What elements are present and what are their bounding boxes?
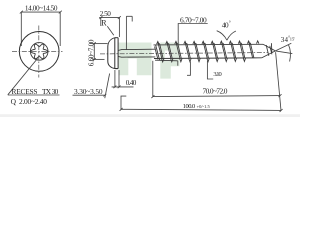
leader 6.70~7.00 <box>178 24 208 45</box>
thread crest top 6 <box>202 41 204 44</box>
svg-text:3.30~3.50: 3.30~3.50 <box>74 87 103 96</box>
thread crest bottom 6 <box>207 58 209 61</box>
leader 6.70~7.00 lower segment <box>177 61 179 66</box>
thread flank line b2 <box>169 43 173 58</box>
thread flank line a8 <box>221 42 225 59</box>
svg-text:0.40: 0.40 <box>126 79 137 87</box>
dimension line 2.50 <box>99 17 120 19</box>
slanted extension line at tip <box>276 52 281 110</box>
thread crest top 4 <box>184 41 186 44</box>
thread flank line b8 <box>223 43 227 58</box>
thread flank line a7 <box>212 42 216 59</box>
head flange edge <box>117 38 119 69</box>
extension line 2.50 left <box>100 18 102 26</box>
tick 70 left <box>151 95 154 98</box>
svg-text:RECESS: RECESS <box>12 87 38 96</box>
head outer circle <box>19 32 59 72</box>
svg-text:°: ° <box>229 22 231 27</box>
screw tip cone top edge <box>263 44 275 51</box>
thread crest top 10 <box>238 41 240 44</box>
thread flank line b9 <box>232 43 236 58</box>
40 deg angle leg right <box>227 31 236 40</box>
tip thread flank 1 <box>266 45 269 56</box>
svg-text:3.10: 3.10 <box>213 71 221 78</box>
thread flank line a4 <box>185 42 189 59</box>
shank bottom line <box>118 55 155 58</box>
thread flank line a3 <box>176 42 180 59</box>
leader line to recess <box>8 59 38 95</box>
thread flank line a10 <box>240 41 244 58</box>
wire: thread bottom root line <box>154 57 262 60</box>
dimension line 0.40 <box>112 86 134 88</box>
thread flank line b3 <box>178 43 182 58</box>
thread crest bottom 9 <box>234 58 236 61</box>
leader underline 3.30~3.50 <box>73 94 105 96</box>
extension line thread start <box>152 61 154 97</box>
thread lead-in flank 1 <box>156 45 160 61</box>
svg-text:2.00~2.40: 2.00~2.40 <box>19 97 47 106</box>
thread crest top 7 <box>211 41 213 44</box>
tip near-vertical flank <box>270 43 273 53</box>
tick right <box>59 11 62 14</box>
thread flank line a1 <box>158 42 162 59</box>
thread flank line b11 <box>250 43 254 58</box>
thread flank line b1 <box>160 43 164 58</box>
thread crest bottom 10 <box>243 58 245 61</box>
extension line 2.50 right <box>118 18 120 37</box>
thread crest bottom 3 <box>180 58 182 61</box>
tick left <box>20 11 23 14</box>
dimension 0.40 ext line right <box>118 70 120 87</box>
scan edge band bottom <box>0 114 300 117</box>
svg-text:14.00~14.50: 14.00~14.50 <box>25 4 58 12</box>
thread crest top 5 <box>193 41 195 44</box>
extension line upper <box>92 43 107 45</box>
svg-text:70.0~72.0: 70.0~72.0 <box>203 86 228 95</box>
thread crest top 1 <box>157 42 159 45</box>
torx star recess <box>31 44 48 59</box>
tick 3.30~3.50 <box>104 94 107 97</box>
tip angle leg lower <box>275 51 292 54</box>
thread flank line b7 <box>214 43 218 58</box>
leader R <box>107 26 114 35</box>
vertical dimension line 6.60~7.00 <box>93 44 95 60</box>
thread flank line a2 <box>167 42 171 59</box>
watermark logo left block <box>119 43 152 76</box>
thread flank line a11 <box>249 41 253 58</box>
dimension line 14.00~14.50 <box>21 11 60 13</box>
extension line right <box>59 12 61 46</box>
tick top <box>93 42 96 45</box>
tick 100 right <box>280 109 283 112</box>
thread flank line b4 <box>187 43 191 58</box>
thread crest bottom 8 <box>225 58 227 61</box>
dimension 0.40 ext line left <box>114 70 116 87</box>
thread flank line b5 <box>196 43 200 58</box>
thread crest bottom 4 <box>189 58 191 61</box>
tip angle leg upper <box>275 43 291 51</box>
leader slanted under head <box>105 74 110 99</box>
centerline axis <box>100 53 268 54</box>
tick 100 left <box>120 108 123 111</box>
tip thread flank 2 <box>270 46 272 55</box>
tick 0.40 b <box>118 86 121 89</box>
centerline horizontal <box>12 51 63 53</box>
dimension line 100.0 <box>121 109 281 110</box>
hook 100.0 left <box>121 96 126 109</box>
svg-text:R: R <box>101 19 107 28</box>
thread crest bottom 2 <box>171 58 173 61</box>
tick bottom <box>93 58 96 61</box>
tick 2.50 right <box>118 16 121 19</box>
watermark logo right block <box>160 43 179 79</box>
svg-text:6.70~7.00: 6.70~7.00 <box>180 15 207 24</box>
tip angle arc <box>288 45 290 62</box>
svg-text:100.0: 100.0 <box>183 103 196 110</box>
thread crest top 2 <box>166 41 168 44</box>
40 deg angle leg left <box>217 31 227 41</box>
thread crest top 3 <box>175 41 177 44</box>
extension line lower <box>92 58 104 60</box>
thread flank line a6 <box>203 42 207 59</box>
svg-text:Q: Q <box>11 97 17 106</box>
head top edge <box>115 37 118 39</box>
screw tip cone bottom edge <box>262 51 276 58</box>
thread crest bottom 1 <box>162 59 164 62</box>
shank top line <box>118 49 155 50</box>
head bottom edge <box>115 68 118 70</box>
thread lead-in flank 2 <box>155 47 158 60</box>
tick 2.50 left <box>99 16 102 19</box>
tick 70 right <box>279 94 282 97</box>
thread crest top 12 <box>256 41 258 44</box>
torx recess outer circle <box>30 43 48 61</box>
thread crest top 9 <box>229 41 231 44</box>
svg-text:15′: 15′ <box>290 36 296 41</box>
thread flank line b6 <box>205 43 209 58</box>
label underline RECESS <box>8 94 60 96</box>
head bearing face <box>114 38 116 69</box>
centerline vertical <box>38 26 40 78</box>
thread bottom envelope segment <box>155 59 178 62</box>
dimension 3.10 right hook <box>207 61 213 79</box>
tick 0.40 a <box>114 86 117 89</box>
dimension line 70.0~72.0 <box>153 96 280 97</box>
bracket dimension small <box>126 16 132 50</box>
thread flank line a5 <box>194 42 198 59</box>
wire: thread top root line <box>154 43 264 46</box>
svg-text:TX 30: TX 30 <box>42 87 59 96</box>
extension line left <box>20 12 22 46</box>
dimension 3.10 left hook <box>187 61 190 75</box>
thread crest bottom 5 <box>198 58 200 61</box>
screw head dome <box>108 38 118 69</box>
svg-text:+0/-1.5: +0/-1.5 <box>197 104 211 109</box>
thread crest top 11 <box>247 41 249 44</box>
thread flank line a9 <box>230 41 234 58</box>
thread crest bottom 7 <box>216 58 218 61</box>
thread crest top 8 <box>220 41 222 44</box>
thread flank line b10 <box>241 43 245 58</box>
